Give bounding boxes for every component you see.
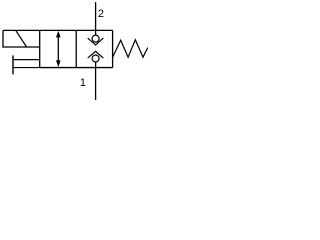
- manual override lower stem line: [13, 67, 40, 69]
- double arrow head up: [56, 31, 61, 38]
- double arrow head down: [56, 60, 61, 67]
- flow path double arrow shaft: [57, 33, 59, 64]
- port 2 wire: [95, 2, 97, 35]
- manual override upper stem line: [13, 59, 40, 61]
- manual override pin cap: [12, 55, 14, 74]
- valve body bottom edge: [40, 67, 113, 69]
- svg-text:1: 1: [80, 77, 86, 89]
- solenoid A1 coil box: [3, 30, 40, 47]
- wire top edge of valve body + solenoid top: [3, 29, 113, 31]
- return spring: [113, 40, 148, 58]
- valve body center divider: [75, 30, 77, 67]
- bottom poppet seat: [88, 51, 104, 58]
- valve body right edge: [112, 30, 114, 67]
- bottom poppet ball: [92, 55, 99, 62]
- top poppet ball: [92, 35, 99, 42]
- port 1 wire: [95, 62, 97, 100]
- top poppet seat: [88, 38, 104, 45]
- valve body left edge: [39, 30, 41, 67]
- svg-text:2: 2: [98, 8, 104, 20]
- solenoid diagonal stroke: [16, 30, 27, 47]
